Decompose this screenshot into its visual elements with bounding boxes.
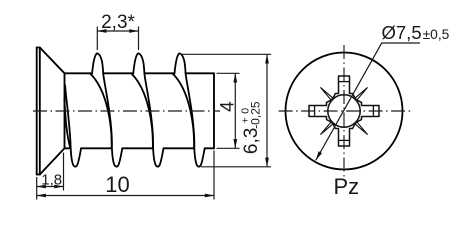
pozidriv arm S — [333, 123, 356, 146]
arrow 10 right — [205, 194, 214, 198]
extension line core top right — [217, 72, 240, 74]
head top cap — [37, 47, 40, 49]
dimension line 4 — [234, 73, 236, 148]
svg-text:Pz: Pz — [334, 174, 360, 199]
dimension line 6,3 — [266, 54, 268, 167]
svg-text:-0,25: -0,25 — [249, 101, 263, 129]
svg-text:6,3: 6,3 — [241, 128, 262, 154]
pozidriv rib NW — [320, 87, 333, 100]
svg-text:4: 4 — [218, 101, 239, 112]
pozidriv rib SE — [355, 122, 368, 135]
screw head face inner line — [39, 48, 41, 175]
thread flight 0 root line — [64, 98, 70, 148]
arrow 1,8 right — [54, 185, 63, 189]
dimension line 1,8 — [37, 186, 64, 188]
arrow 2,3* left — [97, 29, 106, 33]
thread flight 3 crest edge (top crest T3 to bottom crest B4) — [175, 53, 205, 166]
head cone upper line — [40, 48, 65, 74]
extension line head face bottom — [36, 177, 38, 200]
dimension line 2,3* — [97, 30, 138, 32]
arrow 4 bottom — [233, 139, 237, 148]
arrow 6,3 top — [265, 54, 269, 63]
head cone lower line — [40, 148, 65, 174]
extension line core bottom right — [217, 147, 240, 149]
extension line screw end bottom — [213, 151, 215, 200]
svg-text:Ø7,5: Ø7,5 — [382, 22, 422, 43]
pozidriv central circle — [328, 95, 360, 127]
arrow 4 top — [233, 73, 237, 82]
text 6,3 +0/-0,25 (rotated) — [240, 101, 263, 154]
thread flight 1 crest edge (top crest T1 to bottom crest B2) — [92, 53, 122, 166]
arrow 10 left — [37, 194, 46, 198]
screw head face outer line — [36, 48, 38, 175]
thread flight 0 (partial, near head) crest edge — [65, 85, 81, 167]
arrow 1,8 left — [37, 185, 46, 189]
svg-text:10: 10 — [105, 172, 129, 197]
extension line head cone base — [63, 153, 65, 191]
vertical centerline of end view — [343, 45, 345, 177]
svg-text:±0,5: ±0,5 — [423, 27, 450, 42]
horizontal centerline of end view — [279, 110, 412, 112]
pozidriv arm W — [309, 100, 332, 123]
thread flight 3 root line — [172, 73, 194, 148]
extension line crest T2 for 2,3* — [138, 27, 140, 51]
svg-text:1,8: 1,8 — [41, 171, 62, 188]
extension line thread top for 6,3 — [181, 53, 271, 55]
pozidriv rib SW — [320, 122, 333, 135]
head/core junction vertical — [64, 73, 66, 148]
centerline of screw axis — [33, 110, 220, 112]
thread flight 2 crest edge (top crest T2 to bottom crest B3) — [133, 53, 163, 166]
leader arrowhead — [316, 151, 322, 160]
arrow 2,3* right — [129, 29, 138, 33]
thread flight 2 root line — [131, 73, 153, 148]
head bottom cap — [37, 174, 40, 176]
arrow 6,3 bottom — [265, 158, 269, 167]
svg-text:2,3*: 2,3* — [101, 12, 135, 33]
pozidriv rib NE — [355, 87, 368, 100]
extension line crest T1 for 2,3* — [96, 27, 98, 51]
pozidriv arm N — [333, 76, 356, 99]
leader line for diameter 7,5 — [316, 43, 420, 160]
extension line thread bottom for 6,3 — [201, 166, 271, 168]
arrowheads — [37, 29, 269, 197]
pozidriv arm E — [356, 100, 379, 123]
core bottom edge segments — [65, 147, 71, 149]
dimension line 10 — [37, 195, 214, 197]
core top edge segments — [65, 72, 93, 74]
head circle — [286, 53, 403, 170]
screw end face — [213, 73, 215, 148]
thread flight 1 root line — [90, 73, 112, 148]
